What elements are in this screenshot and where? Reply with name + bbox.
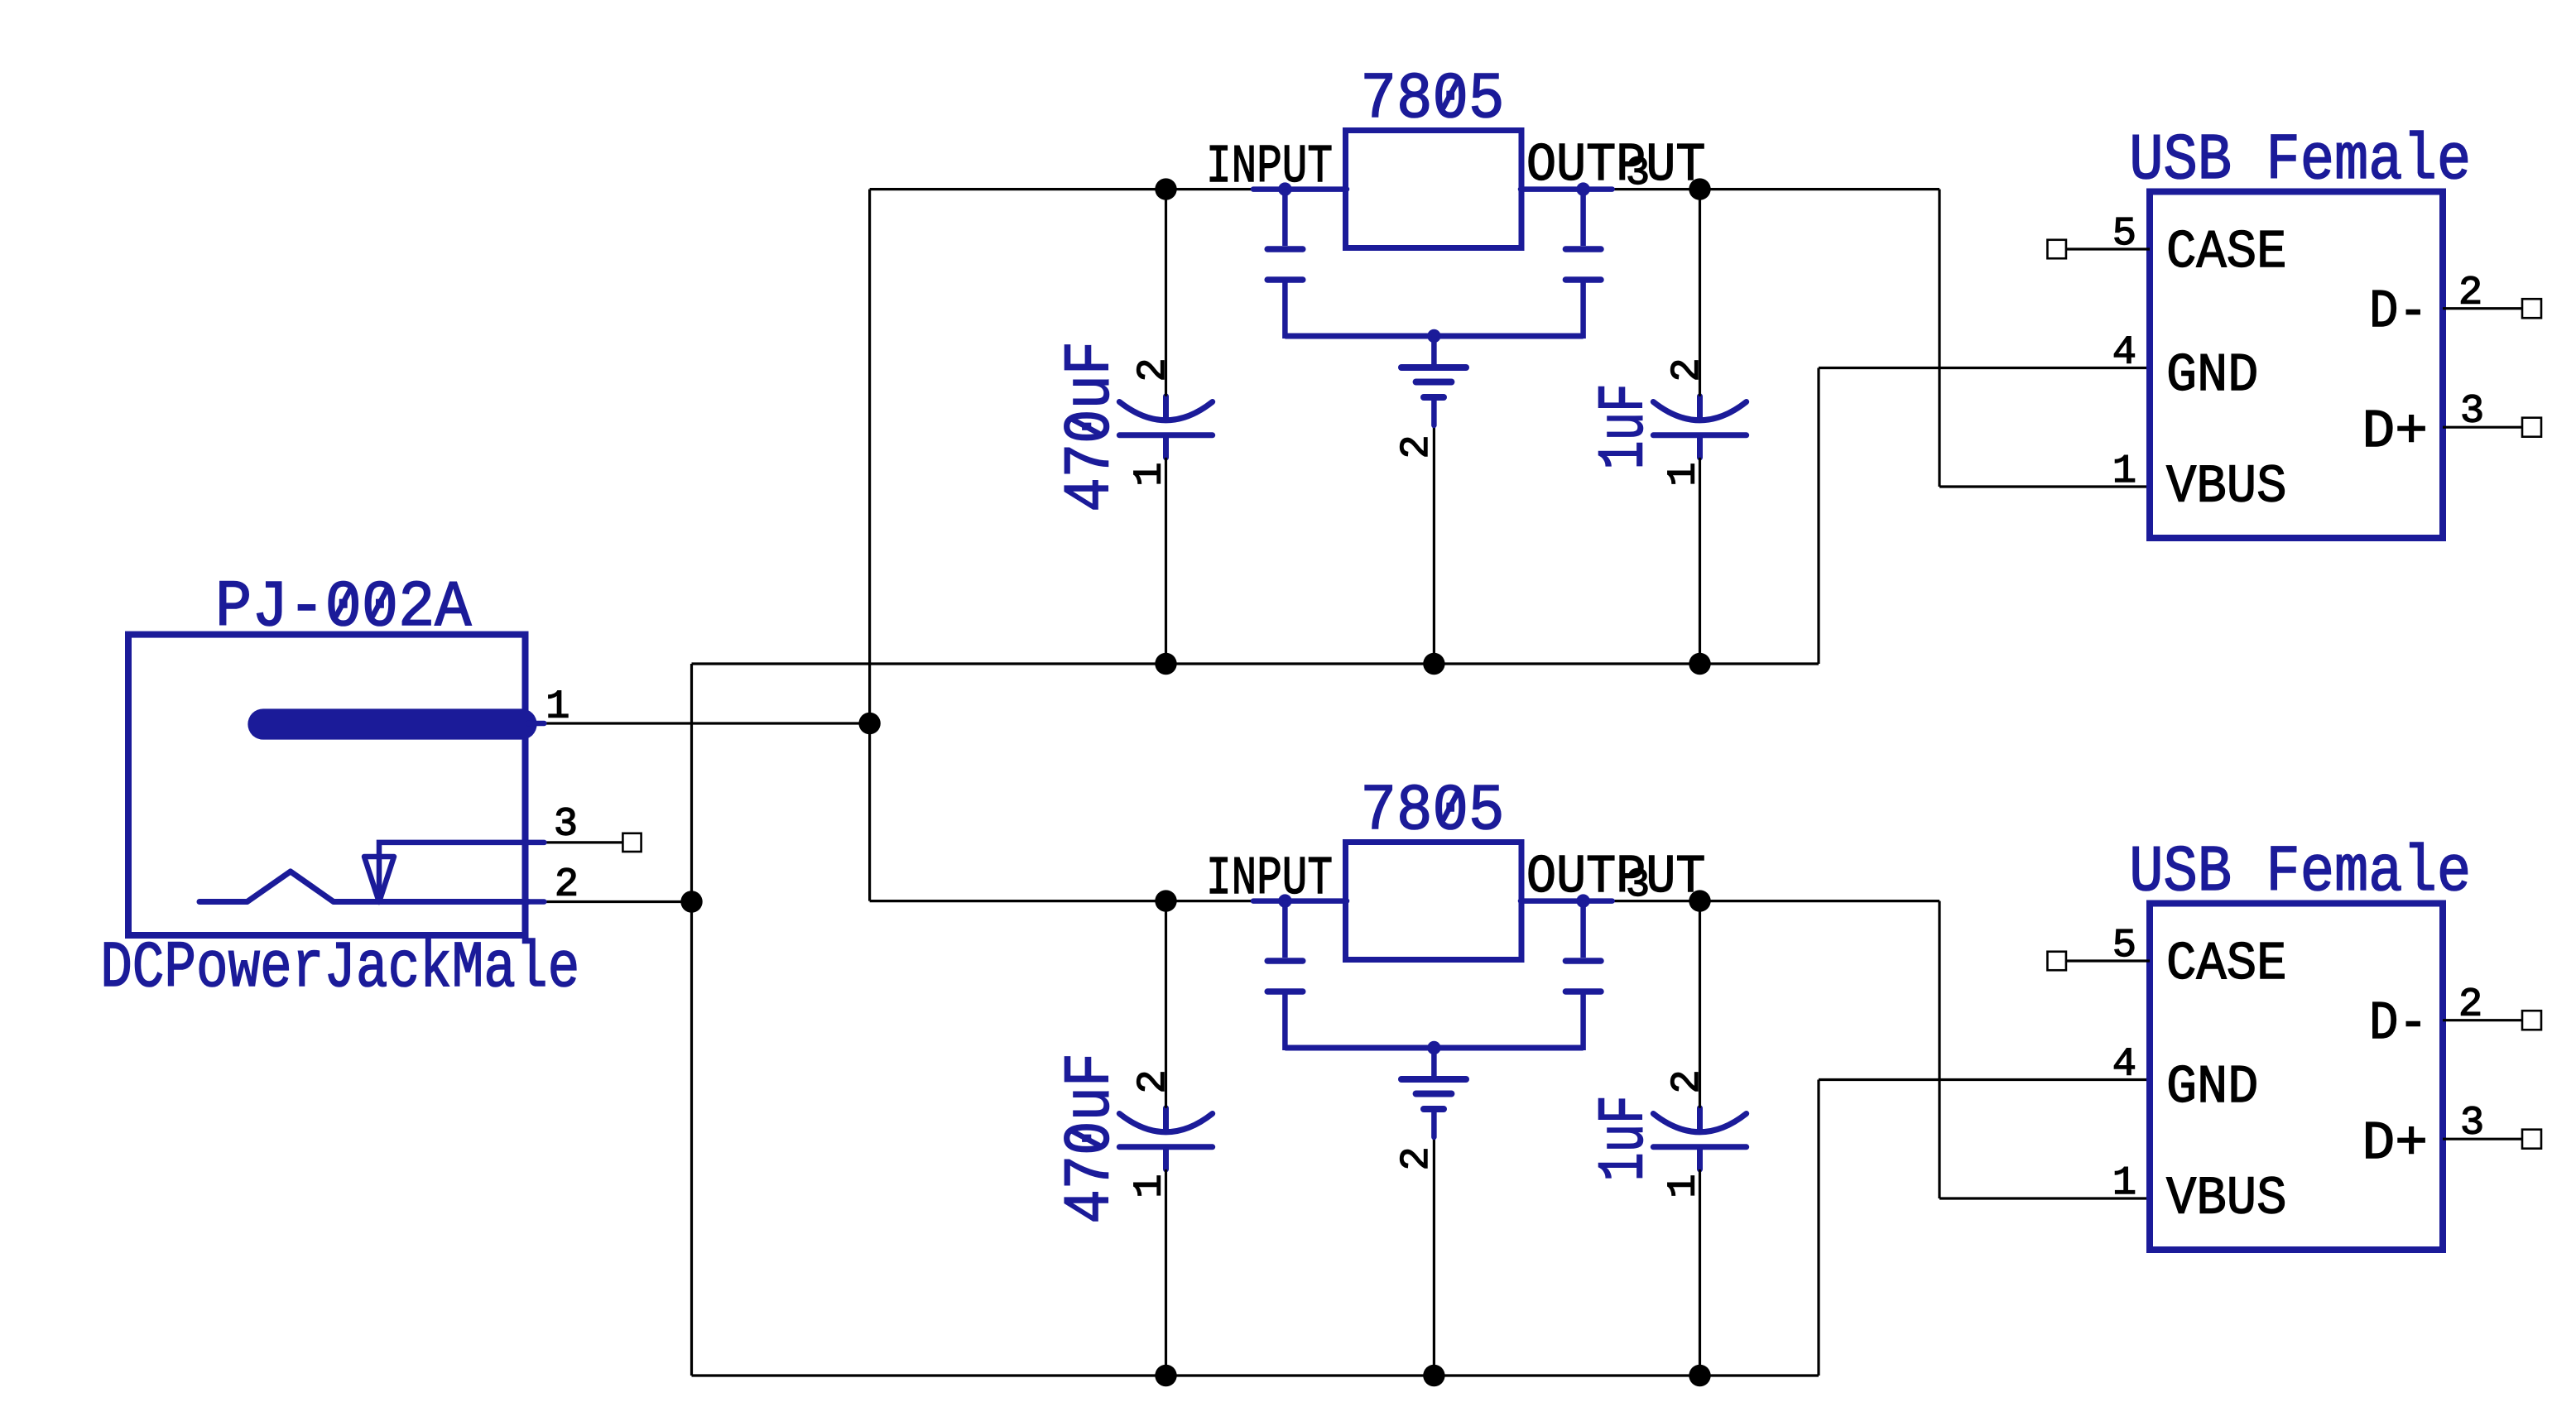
DC power jack J1 PJ-002A body bbox=[128, 635, 526, 935]
slash of zero in 470uF bbox=[1073, 420, 1099, 434]
slash of zero in 7805 bbox=[1444, 81, 1458, 108]
wire C4 top lead bbox=[1699, 901, 1701, 1108]
svg-text:1: 1 bbox=[1127, 1174, 1173, 1198]
wire X2 D+ pin 3 stub bbox=[2443, 1138, 2525, 1140]
svg-text:OUTPUT: OUTPUT bbox=[1526, 847, 1706, 908]
svg-text:GND: GND bbox=[2166, 1057, 2258, 1118]
wire C3 bottom lead bbox=[1165, 1169, 1167, 1376]
wire X1 CASE pin 5 stub bbox=[2066, 247, 2150, 250]
U1 internal node output side bbox=[1576, 182, 1589, 195]
svg-text:4: 4 bbox=[2112, 330, 2136, 376]
wire C1 bottom lead bbox=[1165, 458, 1167, 664]
U1 internal capacitor output side bbox=[1565, 190, 1601, 339]
wire C2 bottom lead bbox=[1699, 458, 1701, 664]
wire ground rail of U2 stage bbox=[692, 1374, 1819, 1376]
terminal square J1 pin 3 bbox=[622, 833, 641, 852]
U2 internal node input side bbox=[1278, 894, 1291, 907]
terminal square X2 pin 2 D- bbox=[2522, 1011, 2541, 1030]
svg-text:4: 4 bbox=[2112, 1042, 2136, 1088]
svg-text:2: 2 bbox=[1394, 435, 1439, 459]
svg-text:2: 2 bbox=[1131, 358, 1176, 382]
svg-text:7805: 7805 bbox=[1361, 774, 1505, 848]
svg-text:D+: D+ bbox=[2362, 401, 2429, 463]
svg-text:DCPowerJackMale: DCPowerJackMale bbox=[100, 931, 579, 1006]
svg-text:CASE: CASE bbox=[2166, 222, 2287, 283]
capacitor C1 470uF bbox=[1119, 396, 1212, 458]
U2 pin 1 INPUT stub bbox=[1253, 898, 1347, 904]
svg-text:2: 2 bbox=[1131, 1069, 1176, 1093]
svg-text:VBUS: VBUS bbox=[2166, 456, 2287, 517]
wire VIN to U2 INPUT bbox=[870, 900, 1253, 902]
wire X2 CASE pin 5 stub bbox=[2066, 959, 2150, 962]
U2 internal ground node bbox=[1427, 1041, 1440, 1054]
wire U2 OUTPUT to USB VBUS net bbox=[1612, 900, 1939, 902]
U1 internal capacitor input side bbox=[1267, 190, 1303, 339]
wire ground rail riser bbox=[1817, 1080, 1819, 1376]
U1 internal node input side bbox=[1278, 182, 1291, 195]
U1 internal ground node bbox=[1427, 329, 1440, 343]
J1 barrel contact (pin 1) bbox=[263, 708, 521, 739]
svg-text:7805: 7805 bbox=[1361, 62, 1505, 137]
junction C4 top / output net bbox=[1689, 890, 1710, 911]
slash of zero in 470uF bbox=[1073, 1131, 1099, 1145]
junction C2 top / output net bbox=[1689, 178, 1710, 199]
wire to USB VBUS pin bbox=[1939, 485, 2150, 487]
svg-text:1uF: 1uF bbox=[1588, 1095, 1662, 1181]
J1 pin 3 stub bbox=[528, 840, 544, 846]
svg-text:2: 2 bbox=[555, 862, 579, 908]
wire U1 OUTPUT to USB VBUS net bbox=[1612, 188, 1939, 190]
U1 pin 3 OUTPUT stub bbox=[1521, 186, 1612, 192]
svg-text:2: 2 bbox=[1665, 1069, 1710, 1093]
USB female connector X1 body bbox=[2150, 192, 2443, 539]
svg-text:3: 3 bbox=[554, 802, 578, 848]
U1 pin 1 INPUT stub bbox=[1253, 186, 1347, 192]
svg-text:USB Female: USB Female bbox=[2129, 123, 2471, 198]
wire ground rail of U1 stage bbox=[692, 662, 1819, 665]
wire X1 D- pin 2 stub bbox=[2443, 307, 2525, 310]
junction J1 pin 2 / ground bus bbox=[680, 891, 702, 912]
terminal square X1 pin 3 D+ bbox=[2522, 418, 2541, 437]
wire VBUS vertical bbox=[1938, 190, 1940, 487]
J1 switch arrow bbox=[364, 857, 394, 902]
J1 pin 1 stub bbox=[528, 721, 544, 727]
slashes of zeros in PJ-002A bbox=[336, 589, 350, 616]
svg-text:2: 2 bbox=[1394, 1146, 1439, 1170]
svg-text:1uF: 1uF bbox=[1588, 383, 1662, 469]
USB female connector X2 body bbox=[2150, 904, 2443, 1251]
svg-text:INPUT: INPUT bbox=[1206, 848, 1333, 910]
junction C1 bottom / ground rail bbox=[1155, 653, 1176, 675]
wire VIN vertical bus from J1 pin 1 bbox=[868, 190, 871, 901]
wire J1 pin 3 stub to terminal bbox=[544, 841, 629, 843]
J1 spring contact zigzag (pin 2) bbox=[199, 872, 528, 902]
wire ground to USB GND pin bbox=[1819, 367, 2150, 369]
svg-text:1: 1 bbox=[545, 684, 570, 730]
U1 ground symbol (pin 2) bbox=[1401, 336, 1466, 425]
wire X1 D+ pin 3 stub bbox=[2443, 426, 2525, 429]
wire VBUS vertical bbox=[1938, 901, 1940, 1198]
svg-text:INPUT: INPUT bbox=[1206, 137, 1333, 198]
svg-text:1: 1 bbox=[1661, 462, 1707, 486]
svg-text:1: 1 bbox=[1127, 462, 1173, 486]
wire C1 top lead bbox=[1165, 190, 1167, 396]
capacitor C4 1uF bbox=[1653, 1108, 1746, 1169]
U2 internal capacitor input side bbox=[1267, 901, 1303, 1050]
svg-text:VBUS: VBUS bbox=[2166, 1168, 2287, 1229]
J1 pin 2 stub bbox=[528, 899, 544, 905]
svg-text:GND: GND bbox=[2166, 345, 2258, 406]
U1 internal ground bus bbox=[1285, 334, 1583, 339]
terminal square X1 pin 5 bbox=[2047, 240, 2066, 259]
wire VIN to U1 INPUT bbox=[870, 188, 1253, 190]
junction C2 bottom / ground rail bbox=[1689, 653, 1710, 675]
wire J1 pin 2 to ground node bbox=[544, 900, 691, 903]
U2 internal node output side bbox=[1576, 894, 1589, 907]
svg-text:1: 1 bbox=[1661, 1174, 1707, 1198]
terminal square X1 pin 2 D- bbox=[2522, 299, 2541, 318]
junction J1 pin 1 / VIN bus bbox=[858, 713, 880, 734]
junction C4 bottom / ground rail bbox=[1689, 1365, 1710, 1386]
wire C4 bottom lead bbox=[1699, 1169, 1701, 1376]
svg-text:USB Female: USB Female bbox=[2129, 835, 2471, 910]
wire C2 top lead bbox=[1699, 190, 1701, 396]
J1 switch contact line (pin 3) bbox=[379, 843, 528, 899]
U2 internal capacitor output side bbox=[1565, 901, 1601, 1050]
slash of zero in 7805 bbox=[1444, 793, 1458, 819]
junction U2 GND / ground rail bbox=[1423, 1365, 1444, 1386]
wire U1 GND pin 2 to rail bbox=[1433, 427, 1435, 664]
wire ground rail riser bbox=[1817, 368, 1819, 665]
voltage regulator U2 7805 body bbox=[1346, 843, 1522, 960]
capacitor C3 470uF bbox=[1119, 1108, 1212, 1169]
wire C3 top lead bbox=[1165, 901, 1167, 1108]
svg-text:1: 1 bbox=[2112, 1160, 2136, 1206]
U2 internal ground bus bbox=[1285, 1045, 1583, 1051]
svg-text:OUTPUT: OUTPUT bbox=[1526, 135, 1706, 196]
wire U2 GND pin 2 to rail bbox=[1433, 1139, 1435, 1376]
junction C1 top / input net bbox=[1155, 178, 1176, 199]
junction U1 GND / ground rail bbox=[1423, 653, 1444, 675]
svg-text:3: 3 bbox=[1626, 151, 1650, 196]
voltage regulator U1 7805 body bbox=[1346, 131, 1522, 248]
wire J1 pin 1 to VIN node bbox=[544, 722, 869, 724]
wire ground vertical bus from J1 pin 2 bbox=[690, 664, 693, 1376]
svg-text:1: 1 bbox=[2112, 449, 2136, 494]
U2 pin 3 OUTPUT stub bbox=[1521, 898, 1612, 904]
wire ground to USB GND pin bbox=[1819, 1078, 2150, 1081]
svg-text:D+: D+ bbox=[2362, 1113, 2429, 1174]
svg-text:CASE: CASE bbox=[2166, 934, 2287, 995]
terminal square X2 pin 3 D+ bbox=[2522, 1130, 2541, 1149]
capacitor C2 1uF bbox=[1653, 396, 1746, 458]
svg-text:D-: D- bbox=[2369, 993, 2428, 1054]
junction C3 bottom / ground rail bbox=[1155, 1365, 1176, 1386]
svg-text:2: 2 bbox=[1665, 358, 1710, 382]
wire X2 D- pin 2 stub bbox=[2443, 1019, 2525, 1021]
junction C3 top / input net bbox=[1155, 890, 1176, 911]
U2 ground symbol (pin 2) bbox=[1401, 1048, 1466, 1137]
svg-text:3: 3 bbox=[1626, 862, 1650, 908]
wire to USB VBUS pin bbox=[1939, 1197, 2150, 1199]
terminal square X2 pin 5 bbox=[2047, 952, 2066, 971]
svg-text:D-: D- bbox=[2369, 281, 2428, 343]
